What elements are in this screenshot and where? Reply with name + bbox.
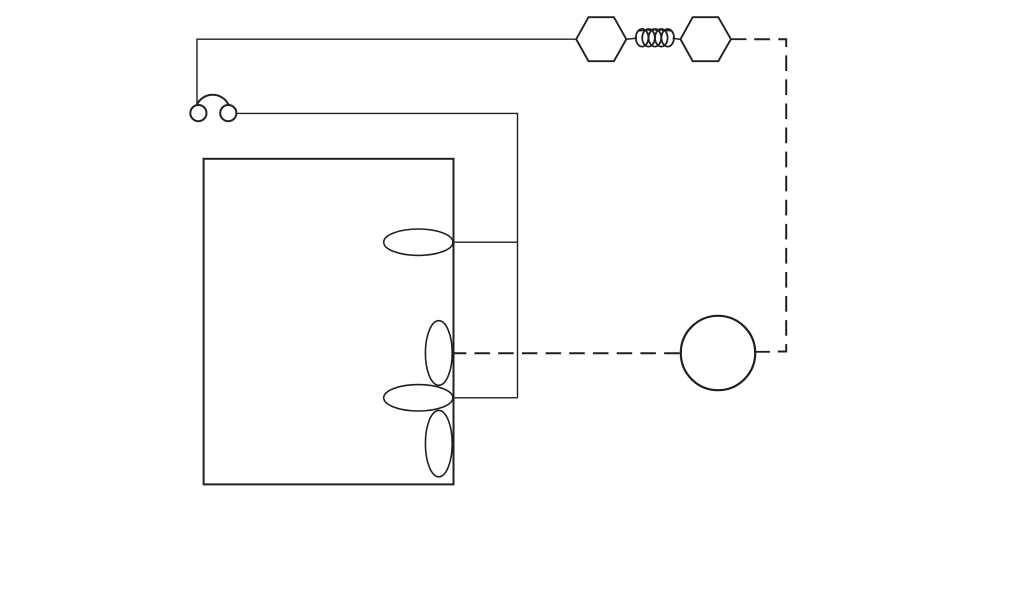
agitator blade ellipse horizontal lower (384, 385, 453, 411)
agitator blade ellipse vertical bottom (425, 410, 452, 476)
wire from jumper right terminal to inner vertical bus and down (236, 113, 517, 397)
wire from hexagon M1 left vertex to jumper (top-left) (197, 39, 576, 104)
spring coupling stub right (673, 37, 681, 40)
spring coupling stub left (626, 38, 637, 39)
wire stub pump right side (755, 351, 770, 353)
spring coupling coil loops (636, 29, 674, 47)
wire stub hexagon M2 right vertex (731, 38, 747, 40)
wire stub vessel bottom nozzle to bus (lower) (454, 397, 518, 399)
jumper terminal circle left (190, 105, 206, 121)
hexagon M2 (right) (681, 17, 731, 61)
vessel tank rectangle (204, 159, 454, 485)
agitator blade ellipse vertical middle (425, 321, 452, 386)
jumper arc (197, 95, 229, 105)
agitator blade ellipse horizontal upper (384, 229, 453, 255)
pump circle (681, 316, 755, 390)
dashed line vessel to pump (454, 352, 681, 354)
jumper terminal circle right (220, 105, 236, 121)
wire stub vessel nozzle to bus (upper) (454, 241, 518, 243)
dashed line hexagon M2 to pump (right side, with corner) (754, 39, 786, 351)
hexagon M1 (left) (576, 17, 626, 61)
